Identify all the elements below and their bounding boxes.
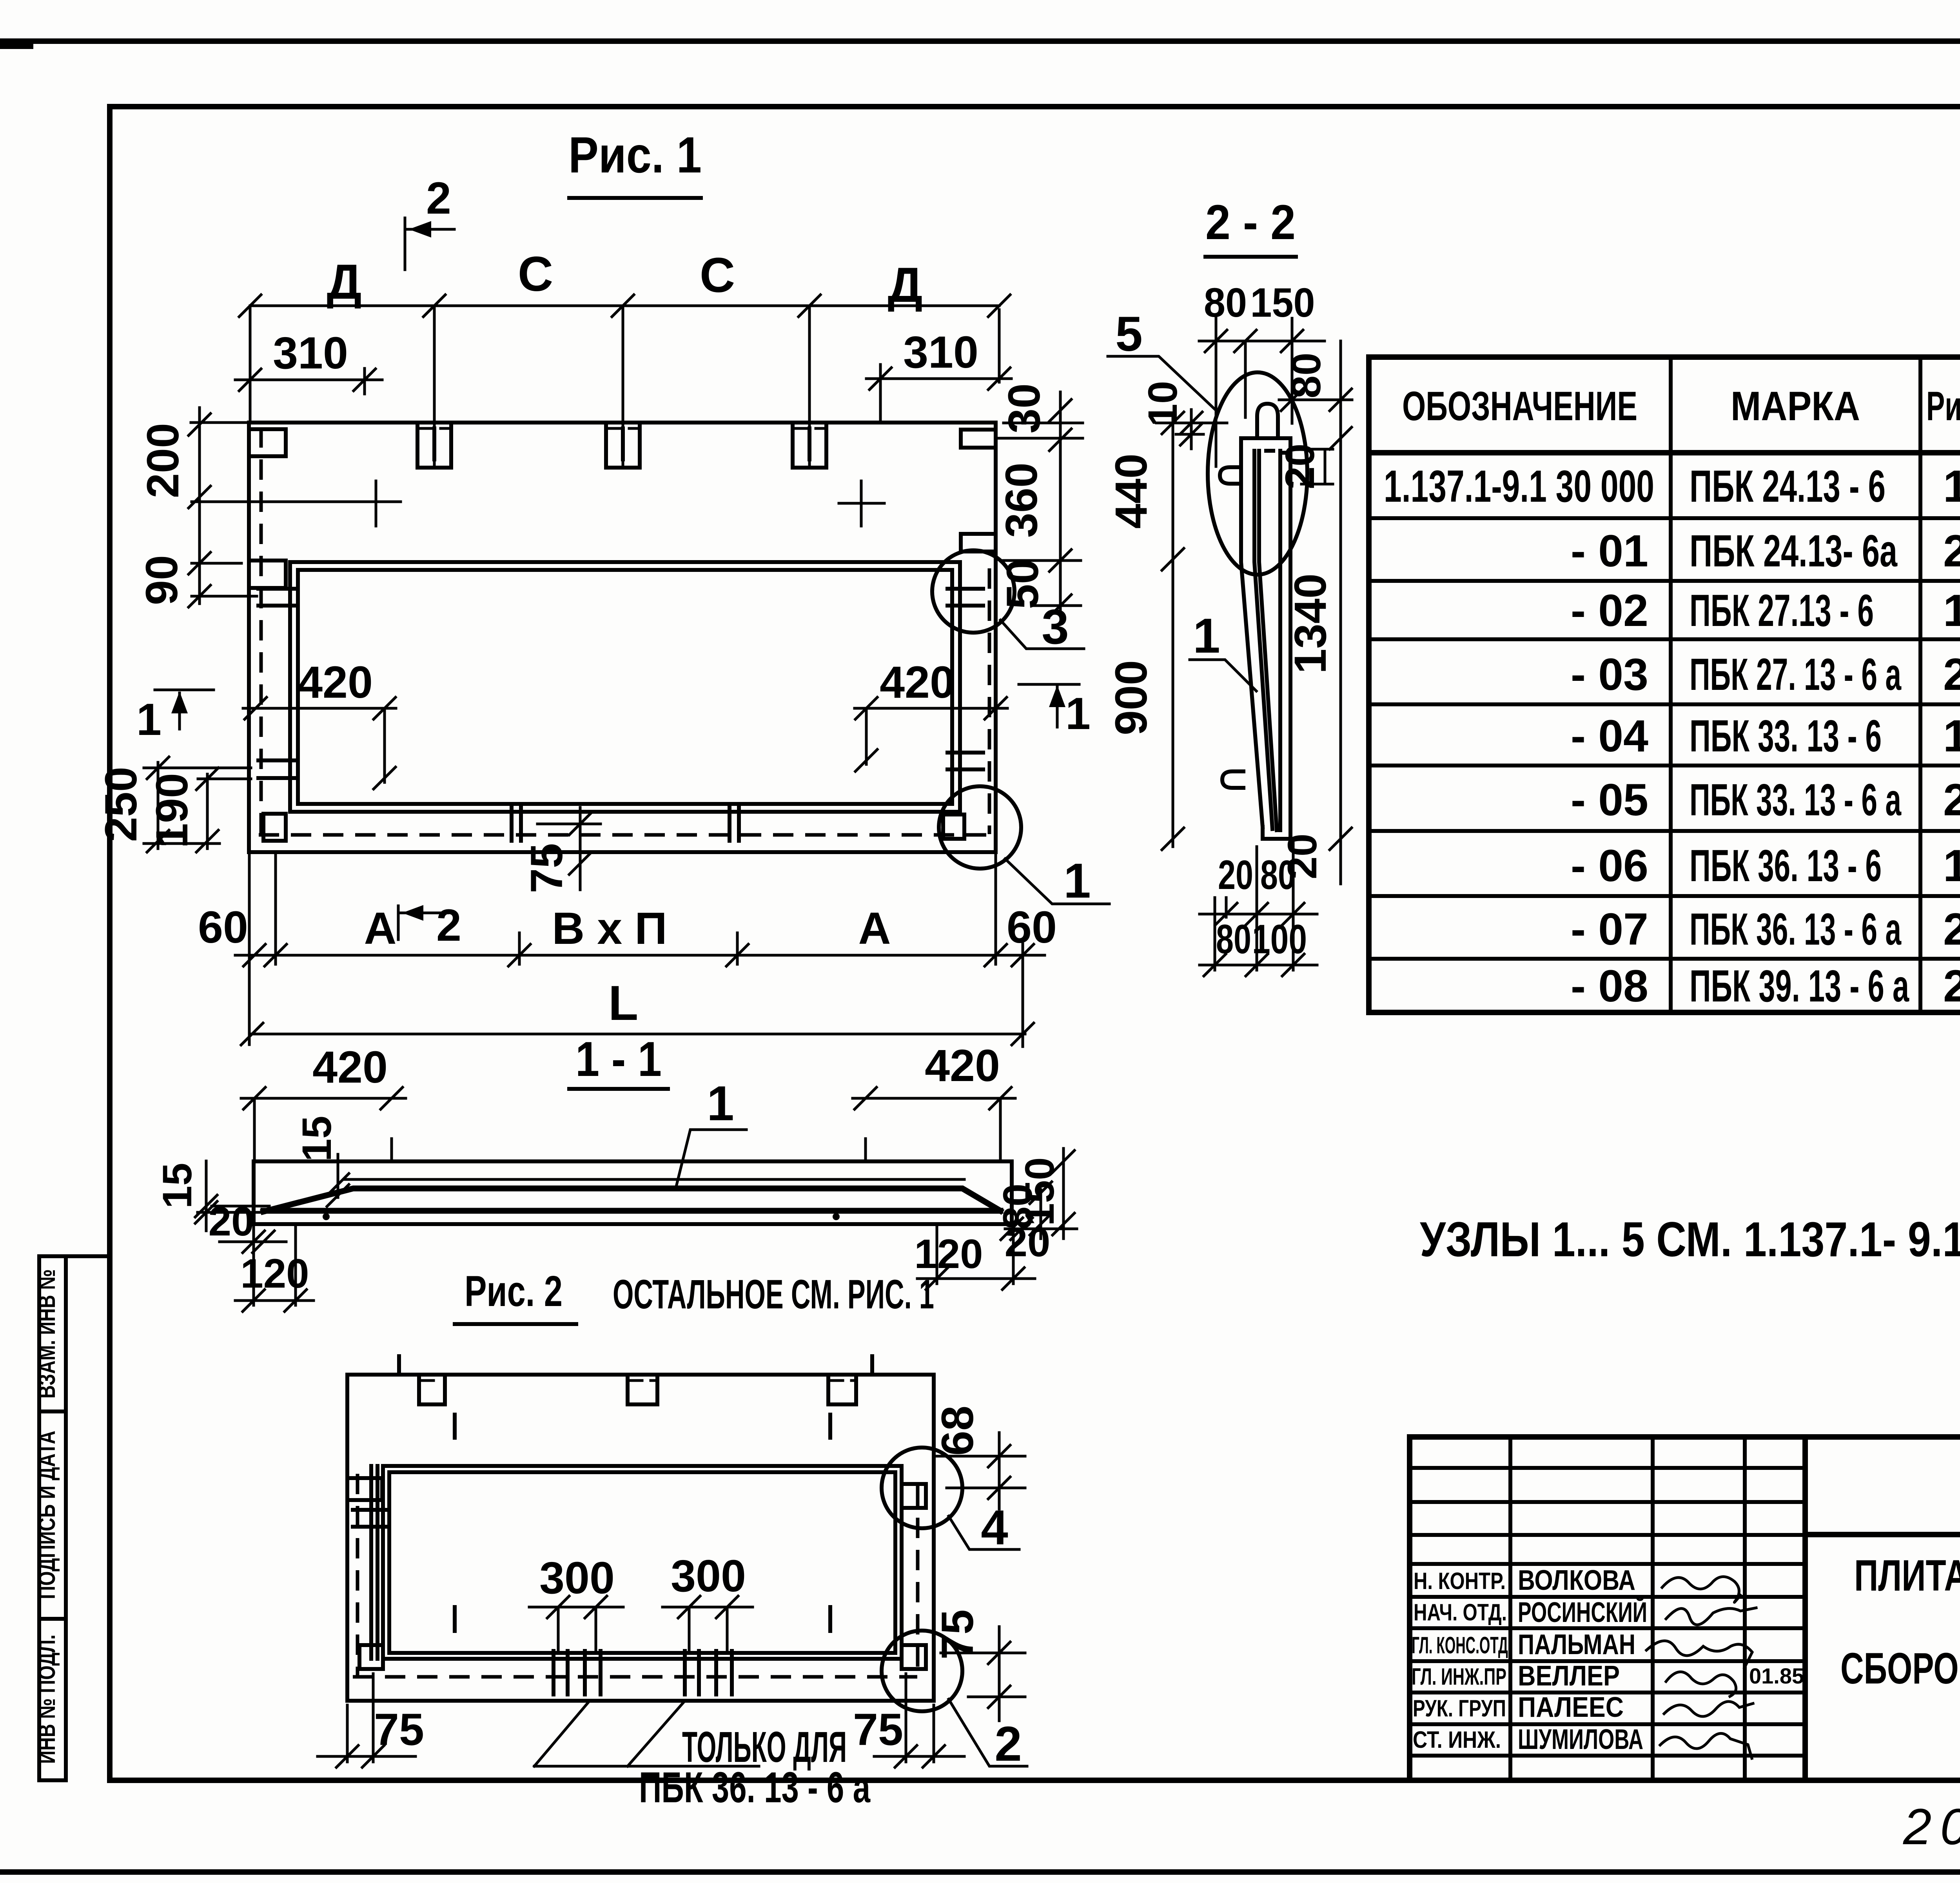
svg-text:1: 1 bbox=[1943, 586, 1960, 636]
svg-text:- 04: - 04 bbox=[1571, 711, 1648, 761]
bottom right square bbox=[902, 1645, 926, 1669]
svg-text:15: 15 bbox=[154, 1163, 200, 1209]
svg-text:75: 75 bbox=[853, 1705, 903, 1755]
svg-text:ПБК 33. 13 - 6: ПБК 33. 13 - 6 bbox=[1690, 711, 1882, 761]
dim line L bbox=[250, 1033, 1025, 1036]
bottom rebar bbox=[263, 1208, 1000, 1214]
svg-text:ПБК 33. 13 - 6 а: ПБК 33. 13 - 6 а bbox=[1690, 775, 1902, 825]
svg-text:420: 420 bbox=[312, 1042, 388, 1092]
svg-text:В х П: В х П bbox=[552, 903, 667, 954]
table outer border bbox=[1369, 357, 1960, 1012]
svg-text:10: 10 bbox=[1140, 381, 1186, 427]
svg-text:68: 68 bbox=[933, 1406, 983, 1456]
role labels bbox=[1412, 1568, 1508, 1753]
title block main vertical divider bbox=[1802, 1437, 1808, 1780]
svg-text:2: 2 bbox=[426, 173, 451, 223]
svg-text:5: 5 bbox=[1115, 307, 1143, 361]
notch center lines bbox=[250, 306, 999, 464]
rebar dots bbox=[323, 1213, 330, 1220]
top rebar with bends bbox=[263, 1188, 1000, 1212]
table header bottom line bbox=[1369, 450, 1960, 455]
svg-text:4: 4 bbox=[981, 1500, 1008, 1555]
hidden dashed lines bbox=[353, 1474, 918, 1677]
svg-text:360: 360 bbox=[996, 463, 1047, 538]
recess inner bbox=[389, 1472, 895, 1653]
svg-text:20: 20 bbox=[1218, 852, 1253, 898]
svg-text:2: 2 bbox=[1943, 775, 1960, 825]
svg-text:1: 1 bbox=[707, 1076, 734, 1131]
svg-text:20: 20 bbox=[1279, 834, 1325, 880]
svg-text:РОСИНСКИЙ: РОСИНСКИЙ bbox=[1518, 1596, 1647, 1628]
table row lines bbox=[1369, 518, 1960, 959]
svg-text:НАЧ. ОТД.: НАЧ. ОТД. bbox=[1414, 1599, 1507, 1625]
svg-text:Д: Д bbox=[887, 258, 922, 312]
svg-text:120: 120 bbox=[914, 1231, 983, 1277]
signature table rows bbox=[1410, 1468, 1805, 1756]
node circle 4 bbox=[882, 1448, 962, 1528]
svg-text:1340: 1340 bbox=[1285, 573, 1336, 674]
row 7 bbox=[1571, 841, 1960, 891]
svg-text:ВОЛКОВА: ВОЛКОВА bbox=[1518, 1565, 1635, 1596]
svg-text:2: 2 bbox=[1943, 904, 1960, 954]
slab outline bbox=[249, 423, 996, 852]
svg-text:С: С bbox=[700, 248, 735, 303]
svg-text:- 01: - 01 bbox=[1571, 526, 1648, 576]
node circle 2 bbox=[882, 1631, 962, 1711]
right dim chain 30 360 50 bbox=[1059, 392, 1062, 611]
title block bbox=[1410, 1437, 1960, 1780]
row 4 bbox=[1571, 649, 1960, 700]
svg-text:60: 60 bbox=[1007, 902, 1057, 952]
svg-text:30: 30 bbox=[999, 383, 1049, 434]
svg-text:Рис. 1: Рис. 1 bbox=[568, 126, 702, 183]
svg-text:РУК. ГРУП: РУК. ГРУП bbox=[1413, 1695, 1506, 1722]
top notch 3 bbox=[793, 423, 826, 468]
row 8 bbox=[1571, 904, 1960, 954]
svg-text:МАРКА: МАРКА bbox=[1731, 383, 1860, 429]
recess outer bbox=[383, 1466, 902, 1659]
svg-text:75: 75 bbox=[522, 843, 572, 893]
svg-text:1.137.1-9.1 30 000: 1.137.1-9.1 30 000 bbox=[1384, 461, 1654, 512]
svg-text:Н. КОНТР.: Н. КОНТР. bbox=[1414, 1568, 1506, 1594]
bars in bottom area bbox=[455, 1607, 830, 1631]
svg-text:20: 20 bbox=[1005, 1219, 1051, 1265]
svg-text:ВЕЛЛЕР: ВЕЛЛЕР bbox=[1518, 1660, 1620, 1692]
svg-text:ПБК 24.13 - 6: ПБК 24.13 - 6 bbox=[1690, 461, 1886, 512]
ticks above top edge bbox=[392, 1139, 866, 1161]
left dim chain 200 90 bbox=[198, 408, 201, 604]
signature squiggles bbox=[1646, 1577, 1756, 1759]
row 2 bbox=[1571, 526, 1960, 576]
svg-text:ПБК 24.13- 6а: ПБК 24.13- 6а bbox=[1690, 526, 1898, 576]
svg-text:СТ. ИНЖ.: СТ. ИНЖ. bbox=[1413, 1727, 1501, 1753]
svg-text:150: 150 bbox=[1250, 280, 1315, 326]
hidden dashed lines bbox=[259, 427, 989, 835]
svg-text:- 03: - 03 bbox=[1571, 649, 1648, 700]
svg-text:90: 90 bbox=[137, 555, 187, 605]
lower left chain 250 190 bbox=[158, 762, 207, 849]
svg-text:100: 100 bbox=[1252, 916, 1307, 962]
svg-text:А: А bbox=[364, 903, 396, 954]
top notch 2 bbox=[606, 423, 640, 468]
svg-text:ПАЛЕЕС: ПАЛЕЕС bbox=[1518, 1692, 1624, 1723]
ticks above top edge bbox=[399, 1356, 872, 1375]
names bbox=[1518, 1565, 1647, 1755]
svg-text:С: С bbox=[518, 247, 553, 301]
svg-text:- 07: - 07 bbox=[1571, 904, 1648, 954]
svg-text:ПБК 39. 13 - 6 а: ПБК 39. 13 - 6 а bbox=[1690, 961, 1909, 1011]
svg-text:20: 20 bbox=[209, 1199, 254, 1244]
svg-text:- 06: - 06 bbox=[1571, 841, 1648, 891]
wall rebar bars left bbox=[353, 1510, 389, 1527]
svg-text:01.85: 01.85 bbox=[1749, 1663, 1804, 1688]
svg-text:А: А bbox=[858, 903, 891, 954]
svg-text:Рис.: Рис. bbox=[1926, 383, 1960, 429]
node ellipse 5 bbox=[1208, 372, 1307, 575]
svg-text:ОБОЗНАЧЕНИЕ: ОБОЗНАЧЕНИЕ bbox=[1402, 383, 1637, 429]
left wall rebar bars bbox=[258, 589, 296, 778]
node circle 1 bbox=[939, 786, 1021, 869]
svg-text:250: 250 bbox=[96, 767, 146, 842]
svg-text:2 - 2: 2 - 2 bbox=[1205, 195, 1296, 250]
bottom left square bbox=[359, 1645, 383, 1669]
top dimension line D C C D bbox=[250, 306, 999, 317]
top notch 3 bbox=[828, 1375, 856, 1404]
svg-text:1 - 1: 1 - 1 bbox=[575, 1032, 662, 1087]
row 3 bbox=[1571, 586, 1960, 636]
title block outer border bbox=[1410, 1437, 1960, 1780]
right edge tab 1 bbox=[961, 430, 996, 448]
bottom rebar pair 1 bbox=[512, 805, 521, 841]
left hook bottom bbox=[1222, 771, 1243, 788]
top notch 1 bbox=[419, 1375, 445, 1404]
recess outer bbox=[290, 562, 960, 812]
svg-text:200: 200 bbox=[138, 423, 188, 498]
svg-text:2: 2 bbox=[1943, 526, 1960, 576]
svg-text:ПБК 36. 13 - 6 а: ПБК 36. 13 - 6 а bbox=[1690, 904, 1902, 954]
left edge tab 1 bbox=[249, 429, 286, 456]
bottom rebar cluster 2 bbox=[685, 1651, 732, 1694]
figure 2 plan view bbox=[318, 1267, 1027, 1812]
svg-text:ГЛ. ИНЖ.ПР: ГЛ. ИНЖ.ПР bbox=[1412, 1663, 1506, 1690]
svg-text:УЗЛЫ 1... 5 СМ. 1.137.1-: УЗЛЫ 1... 5 СМ. 1.137.1- 9.1 00 000 Д 1 bbox=[1420, 1212, 1960, 1267]
svg-text:ПБК 27. 13 - 6 а: ПБК 27. 13 - 6 а bbox=[1690, 649, 1902, 700]
svg-text:- 05: - 05 bbox=[1571, 775, 1648, 825]
section 1-1 bbox=[154, 1032, 1077, 1312]
slab profile outline bbox=[254, 1161, 1012, 1224]
page bottom border line bbox=[0, 1869, 1960, 1875]
left wall double verticals bbox=[371, 1466, 377, 1659]
slab outline bbox=[347, 1375, 934, 1701]
right wall tab bbox=[902, 1484, 926, 1508]
svg-text:ПБК 36. 13 - 6: ПБК 36. 13 - 6 bbox=[1690, 841, 1882, 891]
svg-text:ПБК 36. 13 - 6 а: ПБК 36. 13 - 6 а bbox=[639, 1763, 871, 1812]
bottom left square bbox=[263, 814, 286, 841]
node circle 3 bbox=[932, 550, 1014, 633]
svg-text:420: 420 bbox=[298, 657, 373, 707]
top notch 2 bbox=[628, 1375, 657, 1404]
svg-text:3: 3 bbox=[1042, 600, 1069, 654]
bottom extension lines bbox=[249, 852, 1023, 1047]
left margin strip bbox=[39, 1256, 110, 1780]
svg-text:1: 1 bbox=[1943, 841, 1960, 891]
row 6 bbox=[1571, 775, 1960, 825]
designation box bottom line bbox=[1805, 1532, 1960, 1537]
svg-text:420: 420 bbox=[925, 1041, 1000, 1091]
svg-text:60: 60 bbox=[198, 902, 248, 952]
row 5 bbox=[1571, 711, 1960, 761]
svg-text:1: 1 bbox=[1065, 689, 1091, 739]
svg-text:2: 2 bbox=[1943, 961, 1960, 1011]
bars in top strip bbox=[455, 1415, 830, 1438]
svg-text:ГЛ. КОНС.ОТД: ГЛ. КОНС.ОТД bbox=[1412, 1632, 1508, 1658]
table column lines bbox=[1671, 357, 1960, 1012]
svg-text:ВЗАМ. ИНВ №: ВЗАМ. ИНВ № bbox=[34, 1269, 60, 1399]
svg-text:ШУМИЛОВА: ШУМИЛОВА bbox=[1518, 1724, 1643, 1755]
svg-text:Рис. 2: Рис. 2 bbox=[465, 1267, 563, 1315]
svg-text:СБОРОЧНЫЙ ЧЕРТЕЖ: СБОРОЧНЫЙ ЧЕРТЕЖ bbox=[1840, 1644, 1960, 1693]
lifting loop bbox=[1257, 404, 1278, 437]
svg-text:Д: Д bbox=[327, 255, 361, 309]
svg-text:L: L bbox=[608, 976, 638, 1030]
figure 1 plan view bbox=[96, 126, 1109, 1047]
svg-text:ПОДПИСЬ И ДАТА: ПОДПИСЬ И ДАТА bbox=[34, 1431, 60, 1599]
svg-text:300: 300 bbox=[539, 1553, 615, 1603]
left edge tab bbox=[347, 1478, 382, 1500]
svg-text:2: 2 bbox=[995, 1717, 1022, 1771]
top notch 1 bbox=[417, 423, 451, 468]
member outline bbox=[1241, 438, 1290, 839]
right edge tab 2 bbox=[961, 534, 996, 551]
bottom rebar pair 2 bbox=[730, 805, 739, 841]
specification table bbox=[1369, 357, 1960, 1012]
left edge tab 2 bbox=[249, 561, 286, 588]
bottom dim line A BxP A bbox=[235, 954, 1045, 957]
svg-text:- 02: - 02 bbox=[1571, 586, 1648, 636]
row 9 bbox=[1571, 961, 1960, 1011]
svg-text:440: 440 bbox=[1106, 454, 1156, 529]
recess inner bbox=[298, 570, 952, 804]
axis cross right bbox=[839, 481, 884, 526]
svg-text:900: 900 bbox=[1106, 660, 1156, 735]
svg-text:15: 15 bbox=[294, 1116, 340, 1162]
axis cross left bbox=[192, 481, 401, 526]
svg-text:2: 2 bbox=[1943, 649, 1960, 700]
svg-text:80: 80 bbox=[1216, 916, 1251, 962]
inner rebar lines bbox=[1254, 451, 1277, 830]
svg-text:80: 80 bbox=[1204, 280, 1247, 326]
bottom right square bbox=[943, 815, 964, 839]
svg-text:310: 310 bbox=[903, 327, 978, 377]
svg-text:190: 190 bbox=[147, 773, 197, 848]
svg-text:ОСТАЛЬНОЕ СМ. РИС. 1: ОСТАЛЬНОЕ СМ. РИС. 1 bbox=[613, 1272, 934, 1317]
inner top line bbox=[345, 1178, 964, 1181]
svg-text:ПАЛЬМАН: ПАЛЬМАН bbox=[1518, 1629, 1635, 1660]
svg-text:300: 300 bbox=[671, 1551, 746, 1601]
svg-text:20586 16: 20586 16 bbox=[1903, 1798, 1960, 1855]
svg-text:1: 1 bbox=[1193, 609, 1220, 663]
left hook top bbox=[1220, 467, 1241, 484]
svg-text:1: 1 bbox=[1943, 711, 1960, 761]
svg-text:420: 420 bbox=[880, 657, 955, 707]
svg-text:80: 80 bbox=[1283, 353, 1329, 399]
svg-text:1: 1 bbox=[1063, 854, 1091, 908]
svg-text:2: 2 bbox=[436, 900, 461, 951]
tolko dlya leaders bbox=[534, 1703, 759, 1766]
section 2-2 bbox=[1106, 195, 1352, 976]
fig1 title underline bbox=[569, 196, 701, 200]
svg-text:310: 310 bbox=[273, 328, 348, 378]
svg-text:ПЛИТА БАЛКОННАЯ: ПЛИТА БАЛКОННАЯ bbox=[1854, 1551, 1960, 1600]
svg-text:1: 1 bbox=[136, 695, 162, 745]
svg-text:- 08: - 08 bbox=[1571, 961, 1648, 1011]
row 1 bbox=[1384, 461, 1960, 512]
bottom rebar cluster 1 bbox=[554, 1651, 601, 1694]
signature table verticals bbox=[1510, 1437, 1745, 1780]
svg-text:1: 1 bbox=[1943, 461, 1960, 512]
svg-text:ИНВ № ПОДЛ.: ИНВ № ПОДЛ. bbox=[34, 1634, 60, 1764]
svg-text:ПБК 27.13 - 6: ПБК 27.13 - 6 bbox=[1690, 586, 1874, 636]
svg-text:120: 120 bbox=[240, 1251, 309, 1297]
right wall rebar bars bbox=[947, 589, 983, 769]
